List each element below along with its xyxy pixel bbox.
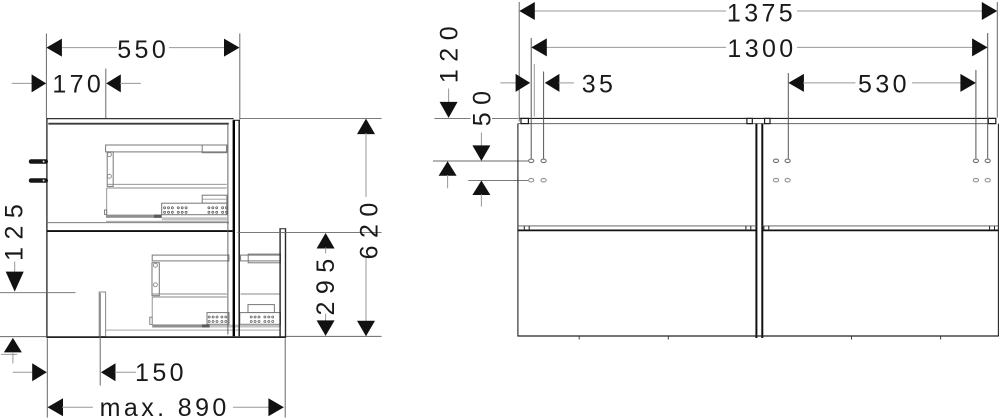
bottom drawer slide: bracket screws xyxy=(153,263,157,267)
svg-text:125: 125 xyxy=(0,197,28,261)
hole extension line col5 xyxy=(987,33,989,158)
dim 550 extension line right xyxy=(239,34,241,120)
dim 620 upper stem xyxy=(365,133,367,197)
dim 150 stem left xyxy=(13,371,34,373)
auxiliary extension line col1b xyxy=(533,64,535,117)
dim 125 arrow up xyxy=(4,338,22,353)
hole extension line col4 xyxy=(975,70,977,158)
console bottom line xyxy=(518,123,996,125)
svg-text:170: 170 xyxy=(52,71,104,99)
bottom tick 3 xyxy=(851,337,853,340)
bottom extension line right xyxy=(286,335,381,337)
console end block right xyxy=(988,118,996,123)
svg-text:530: 530 xyxy=(858,70,910,98)
dim 1375 arrow right xyxy=(982,2,998,20)
dim 550 extension line left xyxy=(45,34,47,119)
bottom drawer slide: top band xyxy=(152,254,280,263)
cabinet bottom line (front view) xyxy=(518,335,999,337)
cabinet top thin line xyxy=(46,118,233,120)
dim 530 arrow left xyxy=(788,74,804,92)
bottom drawer front panel line 1 xyxy=(279,229,281,337)
dim 35 arrow left (outside, pointing right) xyxy=(516,74,531,92)
mounting holes row2 xyxy=(529,178,991,182)
wall bracket upper xyxy=(29,159,48,164)
dim 170 extension line xyxy=(105,69,107,119)
top drawer slide: roller balls xyxy=(164,207,228,214)
divider extension line right xyxy=(238,231,382,233)
svg-text:620: 620 xyxy=(355,195,383,259)
bottom drawer slide: roller housing left xyxy=(207,313,229,325)
bottom drawer box bottom lines xyxy=(152,294,280,317)
svg-text:150: 150 xyxy=(135,359,187,387)
dim 170 arrow left (outside, pointing right) xyxy=(32,74,47,92)
bottom drawer front panel line 2 xyxy=(285,229,287,337)
dim 550 arrow left xyxy=(46,39,62,57)
bottom tick 2 xyxy=(667,337,669,340)
top drawer front panel gap line (thick) xyxy=(233,120,235,336)
dim 1375 extension left xyxy=(518,2,520,122)
hole row2 reference line xyxy=(468,179,528,181)
cabinet right edge (front view) xyxy=(997,124,999,337)
dim 1300 arrow right xyxy=(972,38,988,56)
dim 170 stem right xyxy=(120,82,141,84)
hole row1 reference line xyxy=(433,160,528,162)
dim 35 arrow right (outside, pointing left) xyxy=(545,74,560,92)
svg-text:max. 890: max. 890 xyxy=(100,394,230,420)
svg-text:1300: 1300 xyxy=(727,35,796,63)
divider tick pair right end xyxy=(990,226,995,231)
drawer divider thin line (front view) xyxy=(518,225,999,227)
bottom drawer front panel top cap xyxy=(279,228,286,230)
dim 120 upper stem xyxy=(448,89,450,103)
hole extension line col3 xyxy=(787,73,789,158)
dim 1375 line xyxy=(521,10,984,12)
dim 620 arrow up xyxy=(357,119,375,135)
top drawer slide: bottom line xyxy=(106,220,227,222)
middle gap right line xyxy=(761,124,763,338)
dim 125 lower stem xyxy=(12,352,14,363)
top drawer front panel face line xyxy=(238,120,240,336)
dim max890 arrow left xyxy=(48,398,64,416)
divider dark line xyxy=(47,230,233,232)
dim 620 arrow down xyxy=(357,321,375,337)
dim 170 stem left xyxy=(12,82,33,84)
wall bracket lower xyxy=(29,178,48,183)
dim 550 dimension line xyxy=(62,47,225,49)
svg-text:295: 295 xyxy=(312,251,340,315)
dim 1375 extension right xyxy=(996,2,998,118)
middle gap left line xyxy=(755,124,757,338)
dim 1375 arrow left xyxy=(519,2,535,20)
open drawer front extension xyxy=(284,338,286,417)
top drawer slide: rear upper block xyxy=(202,195,227,203)
dim 125 arrow down xyxy=(6,272,24,292)
dim 295 arrow up xyxy=(317,233,335,249)
dim max890 line left xyxy=(62,406,93,408)
dim 1300 arrow left xyxy=(531,38,547,56)
drawer divider dark line (front view) xyxy=(518,229,999,231)
partition top extension (125 reference) xyxy=(0,292,76,294)
dim max890 arrow right xyxy=(268,398,284,416)
svg-text:1375: 1375 xyxy=(727,0,796,28)
dim 150 stem right xyxy=(115,371,136,373)
mounting holes row1 xyxy=(529,159,991,163)
dim 295 upper stem xyxy=(325,248,327,254)
top drawer front panel top cap xyxy=(233,119,240,121)
top drawer slide: rail notch xyxy=(105,210,107,214)
bottom tick 1 xyxy=(578,337,580,340)
dim 120 arrow down xyxy=(440,102,458,118)
dim 295 arrow down xyxy=(317,320,335,336)
dim 150 arrow right (outside, pointing left) xyxy=(101,363,116,381)
dim 530 arrow right xyxy=(960,74,976,92)
console top line xyxy=(520,117,997,119)
carcass front inner line xyxy=(227,125,229,335)
dim 150 extension line (siphon) xyxy=(99,293,101,385)
floor extension line left xyxy=(0,336,46,338)
top drawer slide: lower rail light bar xyxy=(162,217,227,220)
divider thin line xyxy=(47,222,229,224)
hole extension line col2 xyxy=(543,72,545,159)
dim 150 arrow left (outside, pointing right) xyxy=(32,363,47,381)
cabinet bottom extension left xyxy=(46,338,48,417)
dim 125 lower stem tick xyxy=(1,353,17,355)
cabinet left edge xyxy=(46,118,48,337)
bottom tick 4 xyxy=(940,337,942,340)
bottom drawer slide: roller balls xyxy=(208,316,274,323)
top drawer slide: top band xyxy=(106,145,227,153)
divider tick pair left end xyxy=(524,226,529,231)
console mid block right xyxy=(765,118,770,123)
dim max890 line right xyxy=(233,406,269,408)
bottom drawer slide: rear upper block xyxy=(248,305,274,313)
svg-text:35: 35 xyxy=(582,71,617,99)
bottom drawer slide: rail notch xyxy=(150,317,152,324)
bottom drawer slide: front bracket xyxy=(152,263,159,296)
top drawer slide: front bracket xyxy=(107,152,113,187)
cabinet left edge (front view) xyxy=(517,124,519,337)
dim 35 stem right xyxy=(559,82,574,84)
svg-text:50: 50 xyxy=(468,83,496,126)
dim 50 arrow up xyxy=(472,181,490,196)
dim 620 lower stem xyxy=(365,258,367,323)
top drawer slide: roller housing xyxy=(162,203,227,215)
dim 125 upper stem xyxy=(14,262,16,273)
dim 530 line left xyxy=(803,82,856,84)
dim 50 upper stem xyxy=(480,133,482,147)
top drawer box bottom lines xyxy=(107,184,227,214)
dim 50 lower stem xyxy=(480,194,482,206)
dim 35 stem left xyxy=(500,82,517,84)
dim 530 line right xyxy=(912,82,961,84)
svg-text:550: 550 xyxy=(117,36,169,64)
top drawer slide: lower rail dark bar xyxy=(106,215,162,218)
dim 50 arrow down xyxy=(472,145,490,161)
bottom drawer slide: lower rail dark bar xyxy=(152,324,210,327)
bottom drawer slide: roller housing right xyxy=(240,313,281,325)
top drawer slide: bracket screws xyxy=(107,153,111,157)
dim 120 lower stem xyxy=(447,175,449,188)
divider tick pair mid-left xyxy=(746,226,751,231)
divider tick pair mid-right xyxy=(764,226,769,231)
siphon partition xyxy=(99,292,105,337)
bottom drawer bottom line xyxy=(106,329,281,331)
bottom drawer slide: lower rail light bar xyxy=(210,325,281,328)
dim 295 lower stem xyxy=(325,314,327,322)
dim 1300 line xyxy=(533,46,974,48)
top extension line right xyxy=(240,118,382,120)
dim 170 arrow right (outside, pointing left) xyxy=(106,74,121,92)
hole extension line col1 xyxy=(530,38,532,158)
dim 550 arrow right xyxy=(224,39,240,57)
console end block left xyxy=(521,118,528,123)
dim 120 arrow up xyxy=(439,161,457,176)
svg-text:120: 120 xyxy=(436,19,464,83)
cabinet bottom dark line xyxy=(46,336,286,338)
console top reference line xyxy=(434,117,518,119)
console mid block left xyxy=(747,118,752,123)
cabinet top thick line xyxy=(48,123,229,125)
